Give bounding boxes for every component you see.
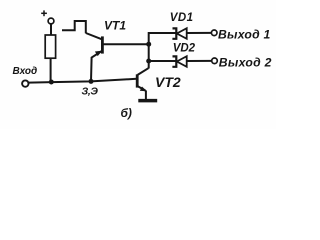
wire emitter to ground bbox=[145, 90, 147, 99]
wire VT1 emitter down bbox=[91, 51, 102, 81]
wire resistor to bottom rail bbox=[50, 58, 52, 82]
diode VD2 triangle bbox=[177, 56, 187, 67]
transistor VT2 bar bbox=[136, 74, 139, 87]
svg-text:Выход 2: Выход 2 bbox=[219, 56, 272, 70]
VT2 emitter diagonal bbox=[138, 86, 146, 90]
node dot emitter/rail bbox=[89, 79, 94, 84]
output 1 terminal bbox=[211, 30, 217, 36]
resistor R bbox=[45, 35, 55, 58]
svg-text:Выход 1: Выход 1 bbox=[218, 28, 271, 42]
svg-text:VT2: VT2 bbox=[155, 74, 181, 90]
svg-text:З,Э: З,Э bbox=[82, 85, 99, 97]
transistor VT1 bar bbox=[101, 36, 104, 53]
diode VD2 cathode bar bbox=[172, 56, 176, 66]
diode VD1 triangle bbox=[177, 28, 187, 39]
pulse stub wire (collector input) bbox=[62, 21, 86, 33]
output 2 terminal bbox=[212, 58, 218, 64]
VT1 emitter arrow (PNP) bbox=[95, 51, 102, 57]
bottom rail wire bbox=[29, 79, 137, 83]
diode VD1 cathode bar bbox=[172, 28, 176, 38]
VT2 collector diagonal bbox=[138, 68, 149, 75]
wire VD1 to output 1 bbox=[187, 32, 212, 34]
node dot base/bus bbox=[146, 42, 151, 47]
svg-text:VT1: VT1 bbox=[104, 19, 126, 33]
svg-text:VD1: VD1 bbox=[170, 12, 194, 24]
plus sign (+ supply) bbox=[41, 10, 47, 16]
svg-text:Вход: Вход bbox=[13, 66, 38, 77]
wire bus to VD2 bbox=[149, 60, 176, 62]
VT1 collector diagonal bbox=[86, 33, 102, 39]
svg-text:VD2: VD2 bbox=[173, 42, 196, 54]
vertical bus wire bbox=[149, 33, 176, 69]
node dot resistor/rail bbox=[49, 80, 54, 85]
supply terminal bbox=[48, 18, 54, 24]
wire VD2 to output 2 bbox=[187, 60, 212, 62]
input terminal bbox=[22, 80, 28, 86]
ground bar bbox=[138, 99, 157, 103]
VT2 emitter arrow (NPN) bbox=[140, 87, 147, 92]
VT1 base wire bbox=[103, 43, 149, 45]
node dot bus/VD2 bbox=[146, 59, 151, 64]
svg-text:б): б) bbox=[121, 106, 132, 120]
wire terminal to resistor bbox=[50, 24, 52, 35]
